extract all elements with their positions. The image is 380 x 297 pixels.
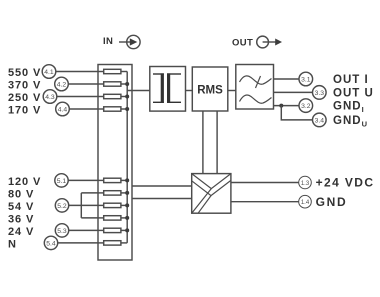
svg-text:5.3: 5.3	[57, 228, 67, 235]
terminal 4.1	[42, 65, 56, 79]
RMS converter U1 box	[192, 67, 228, 111]
svg-text:36 V: 36 V	[8, 213, 34, 225]
filter wave sine	[240, 95, 272, 103]
svg-text:550 V: 550 V	[8, 67, 41, 79]
wire 5.3 to divider	[69, 229, 98, 231]
wire divider to converter upper	[132, 185, 192, 187]
svg-text:4.2: 4.2	[57, 82, 67, 89]
svg-text:170 V: 170 V	[8, 105, 41, 117]
resistor row 370V	[98, 82, 127, 86]
junction dot 54V	[125, 203, 129, 207]
wire 5.2 to divider	[69, 204, 98, 206]
svg-text:GND: GND	[316, 195, 348, 209]
svg-text:4.1: 4.1	[44, 69, 54, 76]
wire filter to 3.3	[274, 91, 313, 93]
terminal 1.3	[299, 176, 312, 189]
wire 4.3 to divider	[57, 96, 98, 98]
bracket joining 80V and 36V rows	[81, 193, 98, 218]
svg-text:OUT U: OUT U	[333, 87, 374, 99]
svg-text:4.3: 4.3	[45, 94, 55, 101]
terminal 3.4	[313, 113, 327, 127]
internal bus	[126, 72, 128, 243]
wire filter to 3.1	[274, 78, 300, 80]
svg-text:+24 VDC: +24 VDC	[316, 176, 375, 190]
svg-text:120 V: 120 V	[8, 176, 41, 188]
power converter box	[192, 174, 231, 214]
wire converter to 1.4	[231, 201, 299, 203]
svg-text:N: N	[8, 238, 17, 250]
wire GND branch to 3.4	[281, 106, 312, 120]
svg-text:1.4: 1.4	[301, 200, 310, 206]
terminal 5.2	[55, 199, 68, 212]
terminal 5.1	[55, 174, 68, 187]
junction dot 24V	[125, 228, 129, 232]
svg-text:5.1: 5.1	[57, 178, 67, 185]
svg-text:OUT I: OUT I	[333, 74, 369, 86]
svg-text:OUT: OUT	[232, 37, 253, 48]
wire converter to 1.3	[231, 182, 299, 184]
resistor row N	[98, 241, 127, 245]
wire 5.4 to divider	[58, 242, 98, 244]
svg-text:80 V: 80 V	[8, 188, 34, 200]
wire RMS to power converter left	[202, 111, 204, 174]
converter symbol	[192, 174, 231, 214]
filter wave crossed	[240, 76, 272, 84]
svg-text:250 V: 250 V	[8, 92, 41, 104]
wire RMS to power converter right	[216, 111, 218, 174]
svg-text:1.3: 1.3	[301, 181, 310, 187]
terminal 3.1	[299, 72, 313, 86]
wire divider to converter lower	[132, 198, 192, 200]
svg-text:5.4: 5.4	[46, 240, 56, 247]
svg-text:370 V: 370 V	[8, 80, 41, 92]
resistor row 550V	[98, 69, 127, 73]
svg-text:3.2: 3.2	[301, 103, 311, 110]
transformer T1 box	[150, 67, 186, 112]
resistor row 170V	[98, 107, 127, 111]
terminal 3.2	[299, 99, 313, 113]
voltage divider box	[98, 65, 132, 261]
svg-text:GNDI: GNDI	[333, 101, 365, 115]
terminal 1.4	[299, 195, 312, 208]
junction dot 80V	[125, 191, 129, 195]
terminal 4.3	[43, 90, 57, 104]
output symbol	[257, 36, 282, 48]
transformer windings symbol	[153, 73, 181, 102]
wire 4.4 to divider	[69, 108, 98, 110]
terminal 5.4	[44, 236, 57, 249]
svg-text:3.1: 3.1	[301, 77, 311, 84]
svg-text:3.4: 3.4	[315, 117, 325, 124]
wire 4.1 to divider	[56, 71, 98, 73]
resistor row 250V	[98, 94, 127, 98]
wire RMS to filter	[228, 90, 236, 92]
resistor row 120V	[98, 178, 127, 182]
junction dot 370V	[125, 82, 129, 86]
svg-text:54 V: 54 V	[8, 201, 34, 213]
svg-text:4.4: 4.4	[58, 107, 68, 114]
resistor row 24V	[98, 228, 127, 232]
resistor row 36V	[98, 216, 127, 220]
svg-text:GNDU: GNDU	[333, 115, 368, 128]
terminal 4.2	[55, 77, 69, 91]
junction dot 36V	[125, 216, 129, 220]
input symbol	[119, 35, 140, 48]
svg-text:3.3: 3.3	[315, 90, 325, 97]
junction dot 120V	[125, 178, 129, 182]
svg-text:5.2: 5.2	[57, 203, 67, 210]
svg-text:IN: IN	[103, 36, 113, 47]
junction dot 250V	[125, 95, 129, 99]
terminal 4.4	[56, 102, 70, 116]
wire transformer to RMS	[186, 90, 193, 92]
terminal 5.3	[55, 224, 68, 237]
junction dot GND	[279, 104, 283, 108]
wire filter to 3.2	[274, 105, 300, 107]
svg-text:RMS: RMS	[197, 84, 223, 96]
resistor row 80V	[98, 191, 127, 195]
terminal 3.3	[313, 86, 327, 100]
wire divider to transformer	[127, 90, 150, 92]
filter box	[236, 65, 274, 110]
junction dot 170V	[125, 107, 129, 111]
svg-text:24 V: 24 V	[8, 226, 34, 238]
filter wave slash	[256, 76, 261, 88]
wire 5.1 to divider	[68, 179, 98, 181]
wire 4.2 to divider	[68, 83, 98, 85]
resistor row 54V	[98, 203, 127, 207]
